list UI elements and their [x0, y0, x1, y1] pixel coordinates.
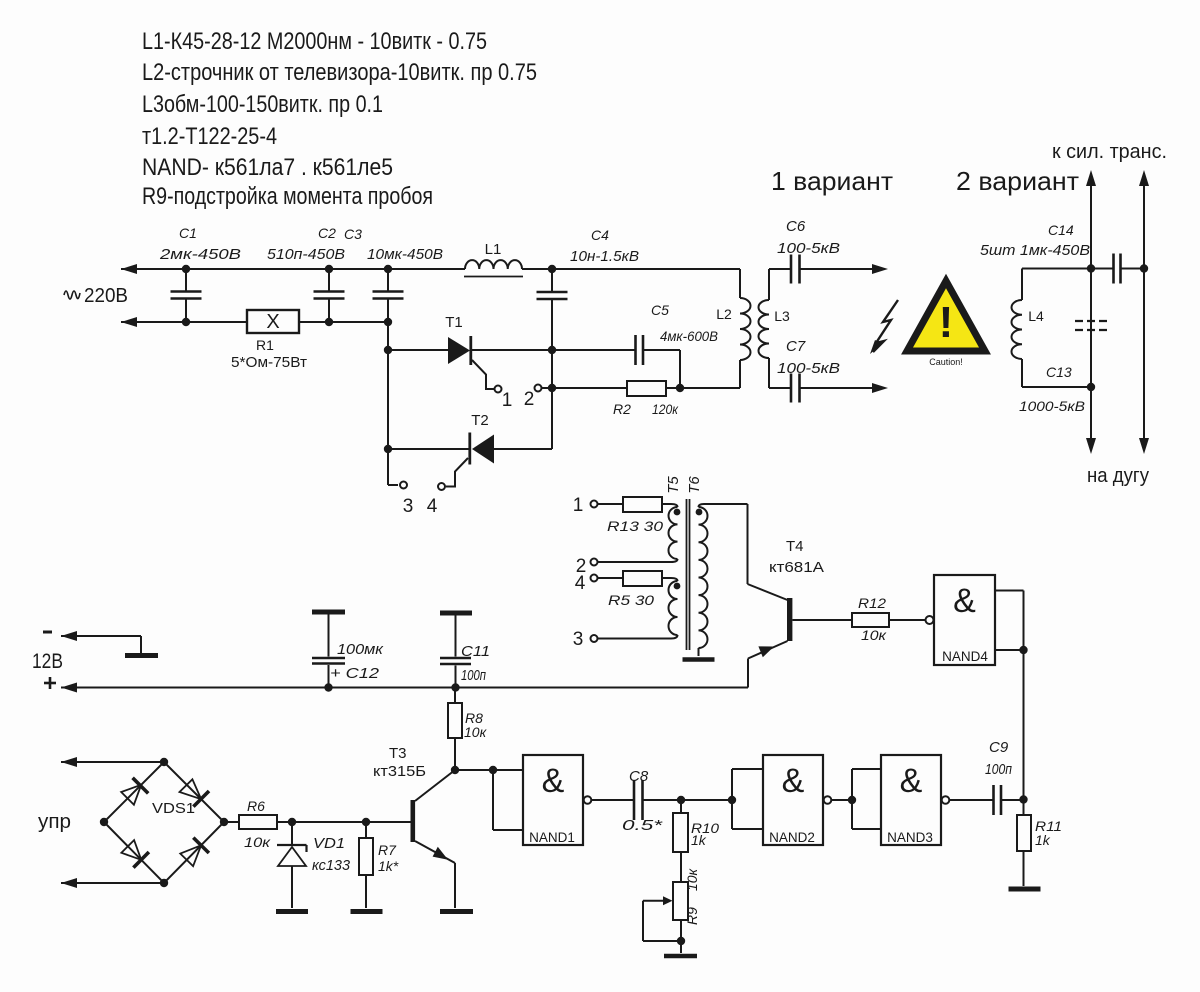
label T3 type — [373, 745, 426, 780]
node: NAND1 input junction — [489, 766, 497, 774]
node: C1 top junction — [182, 265, 190, 273]
svg-text:R7: R7 — [378, 842, 397, 858]
svg-text:10к: 10к — [244, 834, 272, 850]
node: C12 on +12V rail — [324, 683, 332, 691]
svg-text:100п: 100п — [985, 761, 1012, 778]
wire: T3 collector — [415, 770, 455, 801]
resistor R2 — [552, 381, 740, 396]
node: NAND4 inputs junction — [1019, 646, 1027, 654]
NAND3 output bubble — [942, 796, 950, 804]
label R1 value 5*Ом-75Вт — [231, 354, 307, 371]
capacitor C7 — [769, 374, 877, 403]
svg-text:упр: упр — [38, 811, 71, 833]
svg-text:&: & — [953, 582, 976, 620]
svg-text:2мк-450В: 2мк-450В — [159, 246, 241, 263]
svg-text:L1: L1 — [485, 241, 502, 258]
label C4 value — [570, 227, 639, 265]
svg-text:т1.2-Т122-25-4: т1.2-Т122-25-4 — [142, 123, 277, 150]
node: C3 column at T2 level — [384, 445, 392, 453]
wire: C8 node to NAND2 — [681, 799, 732, 801]
transformer T5 lower winding — [598, 578, 678, 639]
svg-text:510п-450В: 510п-450В — [267, 246, 345, 263]
arrow: AC line 2 (bottom rail) left end — [121, 317, 247, 327]
note line 3: L3 spec — [142, 91, 383, 118]
bridge diode (upper-right) — [180, 779, 210, 806]
svg-text:R2: R2 — [613, 401, 631, 417]
svg-text:T6: T6 — [686, 476, 703, 494]
resistor R6 — [224, 815, 292, 829]
svg-text:120к: 120к — [652, 401, 679, 417]
svg-text:C11: C11 — [461, 643, 490, 660]
svg-text:100-5кВ: 100-5кВ — [777, 240, 840, 257]
label R9 value (rotated) — [684, 868, 700, 925]
lightning bolt symbol — [870, 300, 898, 354]
wire: L4 top to left vertical — [1022, 268, 1091, 270]
svg-text:NAND1: NAND1 — [529, 830, 575, 845]
polarity dot T5 lower — [674, 583, 681, 590]
svg-text:L4: L4 — [1028, 308, 1044, 324]
svg-text:VD1: VD1 — [313, 835, 345, 852]
terminal 4 (top section) — [438, 483, 445, 490]
wire: T6 top to T4 collector — [748, 504, 788, 600]
svg-text:R1: R1 — [256, 337, 274, 353]
resistor R1 (box with X) — [247, 310, 299, 333]
arrow & wire: +12V rail — [61, 683, 748, 693]
node: C11 on +12V rail — [451, 683, 459, 691]
label: к сил. транс. — [1052, 141, 1167, 163]
svg-text:3: 3 — [573, 629, 584, 650]
label T2 — [471, 412, 489, 429]
wire: T1 gate — [472, 360, 494, 389]
node: C2 top junction — [325, 265, 333, 273]
resistor R12 — [793, 613, 926, 627]
arrow: -12V lead — [61, 631, 141, 653]
svg-text:L1-К45-28-12 М2000нм - 10витк: L1-К45-28-12 М2000нм - 10витк - 0.75 — [142, 28, 487, 55]
svg-text:0.5*: 0.5* — [622, 817, 664, 834]
label L2 — [716, 306, 732, 322]
wire: base line R6 to T3 — [292, 821, 411, 823]
wire: NAND4 input bottom — [995, 649, 1024, 651]
node: left vertical top junction — [1087, 264, 1095, 272]
thyristor T2 — [470, 388, 552, 465]
svg-text:C13: C13 — [1046, 364, 1072, 380]
label R8 value — [464, 710, 488, 740]
node: C9 / R11 / NAND4-input junction — [1019, 795, 1027, 803]
svg-text:100п: 100п — [461, 667, 486, 684]
svg-text:VDS1: VDS1 — [152, 800, 195, 817]
label T1 — [445, 314, 463, 331]
spark gap C13 (dashed) — [1075, 269, 1107, 388]
terminal 1 (transformer side) — [573, 495, 598, 516]
capacitor C9 — [949, 785, 1024, 815]
svg-text:R13 30: R13 30 — [607, 518, 663, 534]
node: C4 column / R2 line junction — [548, 384, 556, 392]
svg-text:кс133: кс133 — [312, 857, 351, 874]
logic gate NAND4 — [934, 575, 995, 665]
polarity dot T6 — [696, 509, 703, 516]
arrow: output via C6 — [872, 264, 888, 274]
svg-text:R5 30: R5 30 — [608, 592, 654, 608]
logic gate NAND1 — [523, 755, 583, 845]
wire: NAND4 inputs down to C9/R11 node — [1023, 650, 1025, 800]
node: C3 top junction — [384, 265, 392, 273]
label 12В supply — [32, 632, 63, 689]
node: R7 junction — [362, 818, 370, 826]
resistor R13 — [598, 497, 672, 512]
label L4 — [1028, 308, 1044, 324]
svg-text:R9-подстройка момента пробоя: R9-подстройка момента пробоя — [142, 183, 433, 210]
bridge diode (lower-right) — [180, 838, 209, 867]
thyristor T1 — [448, 336, 552, 365]
inductor L3 (secondary) — [759, 269, 770, 388]
wire: variant-2 right vertical — [1139, 170, 1149, 454]
svg-text:&: & — [782, 762, 805, 800]
transformer core — [687, 499, 690, 650]
svg-text:T4: T4 — [786, 538, 804, 555]
node: C1 bottom junction — [182, 318, 190, 326]
node: C2 bottom junction — [325, 318, 333, 326]
label C13 value — [1019, 364, 1085, 414]
label R2 value — [613, 401, 679, 417]
svg-text:10н-1.5кВ: 10н-1.5кВ — [570, 248, 639, 265]
svg-text:&: & — [900, 762, 923, 800]
node: bridge left — [100, 818, 108, 826]
resistor R7 — [359, 822, 373, 908]
bridge diode (lower-left) — [121, 840, 148, 868]
label C5 value — [651, 302, 718, 344]
svg-text:к сил. транс.: к сил. транс. — [1052, 141, 1167, 163]
svg-text:4мк-600В: 4мк-600В — [660, 328, 718, 344]
node: bridge top — [160, 758, 168, 766]
node: R9 bottom junction — [677, 937, 685, 945]
svg-text:на дугу: на дугу — [1087, 465, 1149, 487]
caution triangle sign — [907, 281, 985, 367]
AC source label 220В — [64, 285, 128, 307]
wire: C5 line from C4 junction — [552, 335, 680, 365]
NAND1 output bubble — [584, 796, 592, 804]
note line 5: NAND IC types — [142, 154, 393, 181]
terminal 3 (transformer side) — [573, 629, 598, 650]
label: 1 вариант — [771, 166, 893, 196]
svg-text:1k: 1k — [1035, 832, 1051, 848]
zener diode VD1 — [277, 822, 307, 908]
node: C3 column at T1 level — [384, 346, 392, 354]
NAND4 inverter bubble — [926, 616, 934, 624]
svg-text:C9: C9 — [989, 739, 1009, 756]
node: VD1 junction — [288, 818, 296, 826]
wire: T3 emitter — [415, 841, 455, 908]
label: на дугу — [1087, 465, 1149, 487]
ground (VD1) — [276, 909, 308, 914]
svg-text:1k*: 1k* — [378, 858, 399, 874]
svg-text:220В: 220В — [84, 285, 128, 307]
svg-text:4: 4 — [427, 496, 438, 517]
svg-text:NAND3: NAND3 — [887, 830, 933, 845]
label упр — [38, 811, 71, 833]
svg-text:12В: 12В — [32, 650, 63, 673]
logic gate NAND2 — [763, 755, 823, 845]
wire: T1 anode from C3 column — [388, 349, 449, 351]
wire: T2 gate — [446, 458, 468, 487]
label terminal 4 — [427, 496, 438, 517]
note line 1: L1 winding spec — [142, 28, 487, 55]
label VDS1 — [152, 800, 195, 817]
svg-text:T5: T5 — [665, 476, 682, 494]
label C1 value — [159, 225, 241, 263]
svg-text:1: 1 — [573, 495, 584, 516]
resistor R8 — [448, 688, 462, 771]
svg-text:R6: R6 — [247, 798, 265, 814]
label R10 value — [691, 820, 719, 848]
svg-text:C3: C3 — [344, 226, 362, 242]
wire: C5 to R2 node — [679, 350, 681, 388]
svg-text:L3обм-100-150витк. пр 0.1: L3обм-100-150витк. пр 0.1 — [142, 91, 383, 118]
label T4 type — [769, 538, 824, 576]
svg-text:10к: 10к — [464, 724, 488, 740]
label C8 value — [622, 768, 664, 834]
wire: T4 emitter to +12V rail — [748, 641, 788, 688]
svg-text:1k: 1k — [691, 832, 707, 848]
svg-text:Caution!: Caution! — [929, 357, 963, 367]
svg-text:5шт 1мк-450В: 5шт 1мк-450В — [980, 242, 1090, 259]
wire: L4 bottom to left vertical — [1022, 386, 1091, 388]
label terminal 1 — [502, 390, 513, 411]
node: T1 cathode / C4 junction — [548, 346, 556, 354]
label C7 value — [777, 338, 840, 377]
wire: variant-2 left vertical (to power transformer / arc) — [1086, 170, 1096, 454]
logic gate NAND3 — [881, 755, 941, 845]
label R12 value — [858, 595, 888, 643]
svg-text:C14: C14 — [1048, 222, 1074, 238]
node: C8 / R10 junction — [677, 796, 685, 804]
wire: terminal 2 to C4 column — [542, 387, 553, 389]
capacitor C3 — [373, 269, 404, 322]
capacitor C6 — [769, 255, 877, 284]
transformer T6 secondary winding — [699, 504, 748, 656]
capacitor C4 — [537, 269, 568, 350]
ground (T6 winding) — [683, 657, 715, 662]
svg-text:10мк-450В: 10мк-450В — [367, 246, 443, 263]
potentiometer R9 — [643, 882, 688, 941]
svg-text:3: 3 — [403, 496, 414, 517]
svg-text:T3: T3 — [389, 745, 407, 762]
wire: NAND1 input bracket — [493, 770, 523, 830]
svg-text:100мк: 100мк — [337, 641, 384, 658]
svg-text:R12: R12 — [858, 595, 886, 611]
NAND2 output bubble — [824, 796, 832, 804]
label R1 — [256, 337, 274, 353]
arrow: output via C7 — [872, 383, 888, 393]
capacitor C1 — [171, 269, 202, 322]
node: NAND3 input junction — [848, 796, 856, 804]
note line 2: L2 spec — [142, 59, 537, 86]
inductor L1 — [464, 260, 523, 276]
label R13 value — [607, 518, 663, 534]
wire: NAND4 input top — [995, 591, 1024, 651]
resistor R10 — [673, 800, 688, 882]
wire: top rail from L1 to C4 and L2 — [522, 268, 740, 270]
ground (minus lead) — [125, 653, 158, 658]
arrow: упр input top — [61, 757, 164, 767]
wire: NAND2 input bracket — [732, 769, 763, 829]
terminal 1 (top section) — [495, 386, 502, 393]
wire: NAND2 to NAND3 — [831, 799, 852, 801]
label C11 value — [461, 643, 490, 684]
label C12 value — [330, 641, 384, 682]
terminal 4 (transformer side) — [575, 573, 598, 594]
svg-text:C7: C7 — [786, 338, 806, 355]
label: 2 вариант — [956, 166, 1079, 196]
label VD1 type — [312, 835, 351, 874]
svg-text:2 вариант: 2 вариант — [956, 166, 1079, 196]
svg-text:T2: T2 — [471, 412, 489, 429]
inductor L2 (primary) — [740, 269, 751, 388]
capacitor C2 — [314, 269, 345, 322]
node: NAND2 input junction — [728, 796, 736, 804]
node: left vertical bottom junction — [1087, 383, 1095, 391]
svg-text:&: & — [542, 762, 565, 800]
label R6 value — [244, 798, 272, 850]
node: R2 output junction — [676, 384, 684, 392]
svg-text:1: 1 — [502, 390, 513, 411]
svg-text:5*Ом-75Вт: 5*Ом-75Вт — [231, 354, 307, 371]
terminal 2 (transformer side) — [576, 556, 598, 577]
svg-text:C4: C4 — [591, 227, 609, 243]
label C9 value — [985, 739, 1012, 778]
wire: C4 column down to T2 level — [551, 350, 553, 449]
label C14 value — [980, 222, 1090, 259]
node: T3 collector junction — [451, 766, 459, 774]
resistor R11 — [1017, 800, 1031, 887]
svg-text:1 вариант: 1 вариант — [771, 166, 893, 196]
svg-text:10к: 10к — [684, 868, 700, 892]
node: C3 bottom junction — [384, 318, 392, 326]
node: bridge right — [220, 818, 228, 826]
capacitor C14 — [1091, 254, 1144, 284]
svg-text:X: X — [266, 311, 279, 333]
inductor L4 — [1012, 269, 1023, 388]
svg-text:C5: C5 — [651, 302, 669, 318]
T3 emitter arrow — [433, 847, 448, 860]
transistor T4 base bar — [787, 598, 792, 641]
svg-text:кт681А: кт681А — [769, 559, 824, 576]
svg-text:10к: 10к — [861, 627, 888, 643]
label terminal 3 — [403, 496, 414, 517]
arrow: упр input bottom — [61, 878, 164, 888]
terminal 2 (top section) — [535, 385, 542, 392]
ground (R11) — [1009, 887, 1041, 892]
label L1 — [485, 241, 502, 258]
wire: NAND3 input bracket — [852, 769, 881, 829]
svg-text:NAND4: NAND4 — [942, 649, 988, 664]
svg-text:+ С12: + С12 — [330, 665, 380, 682]
label C2 value — [267, 225, 345, 263]
transformer T5 upper winding — [598, 504, 678, 562]
wire: bottom rail R1 to C3 — [299, 321, 388, 323]
svg-text:NAND2: NAND2 — [769, 830, 815, 845]
svg-text:100-5кВ: 100-5кВ — [777, 360, 840, 377]
bridge diode (upper-left) — [121, 778, 148, 805]
ground (T3 emitter) — [440, 909, 473, 914]
note line 4: thyristor type — [142, 123, 277, 150]
T4 emitter arrow — [758, 646, 774, 657]
label C6 value — [777, 218, 840, 257]
svg-text:L2: L2 — [716, 306, 732, 322]
label T6 — [686, 476, 703, 494]
svg-text:кт315Б: кт315Б — [373, 763, 426, 780]
diode bridge VDS1 frame — [104, 762, 224, 883]
svg-text:C1: C1 — [179, 225, 197, 241]
ground (R7) — [351, 909, 383, 914]
wire: C3 column down to thyristors — [388, 322, 398, 485]
svg-text:T1: T1 — [445, 314, 463, 331]
label T5 — [665, 476, 682, 494]
label R7 value — [378, 842, 399, 874]
wire: collector node to NAND1 inputs — [455, 769, 493, 771]
node: C4 top junction — [548, 265, 556, 273]
node: right vertical junction — [1140, 264, 1148, 272]
svg-text:L3: L3 — [774, 308, 790, 324]
svg-text:NAND- к561ла7 . к561ле5: NAND- к561ла7 . к561ле5 — [142, 154, 393, 181]
svg-text:C8: C8 — [629, 768, 649, 785]
svg-text:4: 4 — [575, 573, 586, 594]
ground (R9) — [664, 954, 697, 959]
label L3 — [774, 308, 790, 324]
label R11 value — [1035, 818, 1062, 848]
node: bridge bottom — [160, 879, 168, 887]
label C3 value — [344, 226, 443, 263]
svg-text:L2-строчник от телевизора-10ви: L2-строчник от телевизора-10витк. пр 0.7… — [142, 59, 537, 86]
note line 6: R9 function — [142, 183, 433, 210]
polarity dot T5 upper — [674, 509, 681, 516]
capacitor C12 (electrolytic) — [312, 612, 345, 688]
svg-text:1000-5кВ: 1000-5кВ — [1019, 398, 1085, 414]
wire: R9 node to ground — [680, 941, 682, 953]
svg-text:R9: R9 — [684, 907, 700, 925]
svg-text:C2: C2 — [318, 225, 336, 241]
capacitor C8 — [592, 780, 682, 820]
svg-text:!: ! — [939, 298, 954, 347]
transistor T3 base bar — [411, 800, 416, 842]
capacitor C11 — [440, 613, 472, 688]
svg-text:C6: C6 — [786, 218, 806, 235]
label terminal 2 — [524, 389, 535, 410]
arrow: AC line 1 (top rail) left end — [121, 264, 465, 274]
svg-text:2: 2 — [524, 389, 535, 410]
terminal 3 (top section) — [400, 482, 407, 489]
label R5 value — [608, 592, 654, 608]
wire: T2 line from C3 column — [388, 448, 470, 450]
resistor R5 — [598, 571, 672, 586]
